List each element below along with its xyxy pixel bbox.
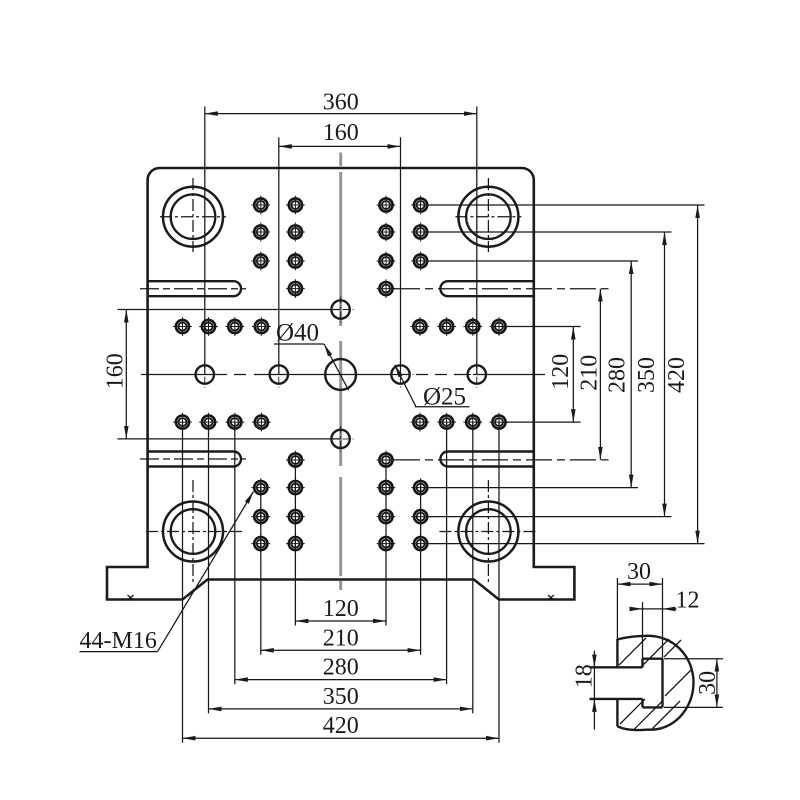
dim 120 right extension line upper — [507, 326, 581, 328]
slot bottom-right — [440, 452, 533, 467]
hole D25 mid-left — [266, 362, 292, 388]
label 44-M16 leader — [158, 492, 254, 652]
dim 280 right extension line upper — [429, 260, 638, 262]
dim 350 right line — [664, 232, 666, 517]
hole D40 center — [325, 359, 356, 390]
hole D25 mid-right — [388, 362, 414, 388]
detail dim 12 line — [643, 608, 663, 610]
hatching bottom region — [620, 699, 680, 731]
dim 210 bottom extension line right — [420, 481, 422, 655]
dim 120 right line — [572, 327, 574, 423]
svg-text:160: 160 — [323, 120, 359, 146]
M16 tapped hole row upper-middle — [173, 317, 508, 336]
detail dim 30 top ext right / cavity edge extension — [662, 578, 664, 659]
detail dim 30 right line — [716, 659, 718, 708]
slot top-right — [440, 281, 533, 296]
svg-text:Ø40: Ø40 — [276, 320, 319, 347]
dim 360 line — [205, 113, 477, 115]
dim 420 right extension line lower — [429, 543, 705, 545]
svg-text:210: 210 — [323, 625, 359, 651]
slot top-left centerline — [140, 288, 246, 290]
detail left edge upper — [616, 639, 618, 667]
center vertical centerline (gray) — [339, 153, 342, 591]
tie-bar hole bottom-right — [458, 502, 518, 562]
dim 350 bottom extension line left — [208, 422, 210, 713]
svg-text:12: 12 — [676, 588, 700, 614]
svg-text:44-M16: 44-M16 — [80, 628, 157, 654]
platen plate outline — [107, 168, 574, 600]
hole D25 far-left — [192, 362, 218, 388]
detail dim 30 right ext top — [664, 658, 723, 660]
dim 420 right extension line upper — [429, 204, 705, 206]
dim 350 right extension line upper — [429, 231, 672, 233]
hole D25 far-right — [464, 362, 490, 388]
T-slot mouth top line — [590, 666, 643, 668]
detail dim 30 top line — [617, 583, 662, 585]
dim 420 bottom extension line right — [498, 422, 500, 743]
M16 tapped hole cluster top-right — [377, 196, 430, 298]
detail left edge lower — [616, 699, 618, 727]
T-slot cavity right edge — [661, 659, 663, 708]
detail dim 30 top ext left — [616, 578, 618, 640]
detail dim 18 line — [593, 651, 595, 730]
tie-bar hole top-left — [163, 187, 223, 247]
slot top-left — [148, 281, 241, 296]
slot bottom-left — [148, 452, 241, 467]
svg-text:350: 350 — [323, 684, 359, 710]
M16 tapped hole cluster bottom-left — [251, 451, 304, 553]
hatching right region — [665, 670, 691, 696]
slot bottom-right centerline + dim 210 extension — [394, 459, 609, 461]
dim 350 right extension line lower — [429, 516, 672, 518]
svg-text:210: 210 — [576, 355, 602, 391]
slot bottom-left centerline — [140, 458, 246, 460]
T-slot mouth bottom line — [590, 698, 643, 700]
slot top-right centerline + dim 210 extension — [394, 288, 609, 290]
svg-text:280: 280 — [605, 357, 631, 393]
svg-text:360: 360 — [323, 89, 359, 115]
tie-bar hole bottom-left — [163, 502, 223, 562]
tie-bar hole bottom-right centerlines — [439, 480, 535, 584]
dim 160 top line — [279, 145, 401, 147]
svg-text:30: 30 — [695, 671, 721, 695]
dim 160 left extension line lower — [118, 438, 341, 440]
detail dim 18 arrow top — [593, 655, 595, 668]
dim 420 right line — [697, 205, 699, 544]
detail dim 12 ext — [642, 602, 644, 659]
dim 420 bottom extension line left — [182, 422, 184, 743]
dim 280 bottom extension line left — [234, 422, 236, 684]
M16 tapped hole cluster bottom-right — [377, 451, 430, 553]
dim 360 extension line right — [476, 107, 478, 375]
svg-text:350: 350 — [634, 357, 660, 393]
svg-text:30: 30 — [627, 559, 651, 585]
dim 120 bottom extension line right — [385, 466, 387, 626]
dim 160 top extension line right — [400, 137, 402, 374]
tie-bar hole top-right centerlines — [455, 178, 521, 252]
dim 280 right extension line lower — [429, 487, 638, 489]
dim 280 bottom extension line right — [446, 422, 448, 684]
svg-text:18: 18 — [572, 664, 598, 688]
svg-text:120: 120 — [323, 596, 359, 622]
hole D25 upper — [328, 297, 354, 323]
svg-text:120: 120 — [548, 354, 574, 390]
dim 350 bottom extension line right — [472, 422, 474, 713]
detail dim 18 arrow bottom — [593, 699, 595, 712]
tie-bar hole top-right — [458, 187, 518, 247]
dim 160 left extension line upper — [118, 309, 341, 311]
T-slot step top — [641, 659, 643, 668]
dim 160 left line — [125, 310, 127, 439]
svg-text:420: 420 — [323, 713, 359, 739]
detail dim 30 right ext bottom — [664, 706, 723, 708]
dim 280 bottom line — [235, 679, 447, 681]
hole D25 lower — [328, 426, 354, 452]
dim 120 right extension line lower — [507, 421, 581, 423]
T-slot cavity top line — [643, 658, 663, 660]
machining mark x left foot — [128, 595, 134, 600]
dim 420 bottom line — [183, 737, 500, 739]
T-slot step bottom — [641, 699, 643, 708]
dim 210 bottom line — [261, 649, 421, 651]
M16 tapped hole cluster top-left — [251, 196, 304, 298]
detail dim 12 arrow left — [630, 608, 643, 610]
label 44-M16 underline — [80, 651, 158, 653]
dim 280 right line — [630, 261, 632, 488]
dim 120 bottom extension line left — [294, 466, 296, 626]
detail dim 12 arrow right — [663, 608, 677, 610]
dim 360 extension line left — [204, 107, 206, 375]
dim 350 bottom line — [209, 708, 473, 710]
svg-text:420: 420 — [664, 357, 690, 393]
dim 210 right line — [599, 289, 601, 460]
detail view blob outline — [617, 636, 693, 730]
horizontal centerline — [141, 374, 545, 376]
dim 120 bottom line — [295, 620, 386, 622]
dim 210 bottom extension line left — [260, 481, 262, 655]
svg-text:160: 160 — [102, 353, 128, 389]
tie-bar hole bottom-left centerlines — [146, 480, 242, 584]
hatching top region — [619, 638, 681, 667]
label D25 underline — [415, 406, 470, 408]
machining mark x right foot — [548, 595, 554, 600]
label D40 underline — [274, 343, 324, 345]
T-slot cavity bottom line — [643, 706, 663, 708]
tie-bar hole top-left centerlines — [160, 178, 226, 252]
svg-text:280: 280 — [323, 655, 359, 681]
dim 160 top extension line left — [278, 137, 280, 374]
label D25 leader — [395, 365, 416, 407]
M16 tapped hole row lower-middle — [173, 413, 508, 432]
label D40 leader — [324, 344, 349, 390]
